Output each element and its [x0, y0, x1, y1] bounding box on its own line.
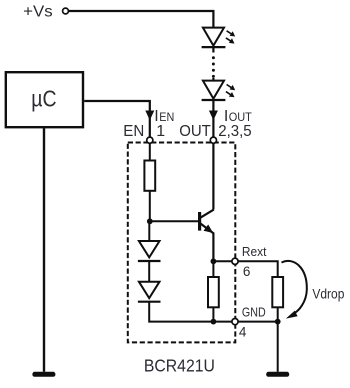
svg-text:+Vs: +Vs — [23, 3, 53, 20]
ground (right) — [266, 372, 289, 377]
wire node to R2 — [212, 261, 214, 277]
current arrow IOUT — [209, 111, 218, 121]
wire OUT pin to Q1 collector — [212, 143, 214, 209]
dotted continuation (more LEDs) — [212, 56, 215, 78]
junction Rext bottom / ground — [275, 319, 281, 325]
wire stub below LED1 — [212, 47, 214, 52]
wire D2 to GND rail — [149, 302, 213, 322]
terminal +Vs — [63, 8, 69, 14]
junction base node — [147, 218, 153, 224]
resistor R2 — [208, 277, 219, 307]
resistor Rext — [272, 277, 283, 307]
svg-text:µC: µC — [31, 85, 56, 111]
transistor Q1 — [200, 210, 214, 234]
wire R2 to GND rail — [212, 307, 214, 321]
wire from +Vs terminal to LED string — [69, 11, 214, 27]
svg-text:EN: EN — [123, 123, 144, 140]
svg-text:OUT: OUT — [179, 123, 211, 140]
junction emitter/R2 node — [211, 258, 217, 264]
ground (left) — [32, 372, 55, 377]
pin OUT terminal circle (pins 2,3,5) — [210, 137, 216, 143]
wire down to ground (right) — [277, 322, 279, 372]
wire uC output to EN pin — [84, 101, 150, 137]
pin EN terminal circle (pin 1) — [147, 137, 153, 143]
wire D1 to D2 — [148, 261, 150, 282]
svg-text:6: 6 — [243, 264, 251, 279]
svg-text:EN: EN — [159, 110, 174, 124]
wire stub above LED2 — [212, 78, 214, 81]
svg-text:GND: GND — [242, 305, 266, 320]
resistor R1 — [144, 161, 155, 191]
svg-text:Rext: Rext — [242, 244, 267, 259]
dashed device outline BCR421U — [128, 143, 236, 343]
svg-text:4: 4 — [239, 325, 247, 340]
diode D4 (internal, lower) — [138, 282, 161, 302]
wire LED2 cathode to OUT pin — [212, 100, 214, 137]
wire GND rail to external ground — [213, 321, 277, 323]
junction GND rail / R2 — [211, 319, 217, 325]
svg-text:1: 1 — [156, 123, 165, 140]
wire R1 to base node — [149, 191, 151, 222]
LED D1 (top of LED string) — [202, 28, 236, 47]
pin GND terminal circle (pin 4) — [232, 319, 238, 325]
current arrow IEN — [145, 111, 154, 121]
wire Rext resistor to GND node — [277, 307, 279, 321]
svg-text:2,3,5: 2,3,5 — [218, 123, 252, 140]
Vdrop measurement arc — [282, 261, 307, 314]
svg-text:Vdrop: Vdrop — [312, 286, 344, 302]
diode D3 (internal, upper) — [138, 241, 161, 261]
wire base node to D1 — [148, 221, 150, 241]
wire Q1 emitter to Rext node — [212, 233, 214, 262]
svg-text:BCR421U: BCR421U — [144, 356, 215, 376]
wire uC to ground — [43, 128, 45, 372]
pin Rext terminal circle (pin 6) — [232, 258, 238, 264]
wire Rext node to external resistor — [213, 261, 277, 277]
LED D2 (bottom of LED string) — [202, 81, 236, 100]
wire EN pin to R1 — [149, 143, 151, 160]
wire base node to Q1 base — [150, 220, 199, 222]
microcontroller U1 "µC" box — [6, 72, 83, 127]
svg-text:OUT: OUT — [229, 110, 253, 124]
